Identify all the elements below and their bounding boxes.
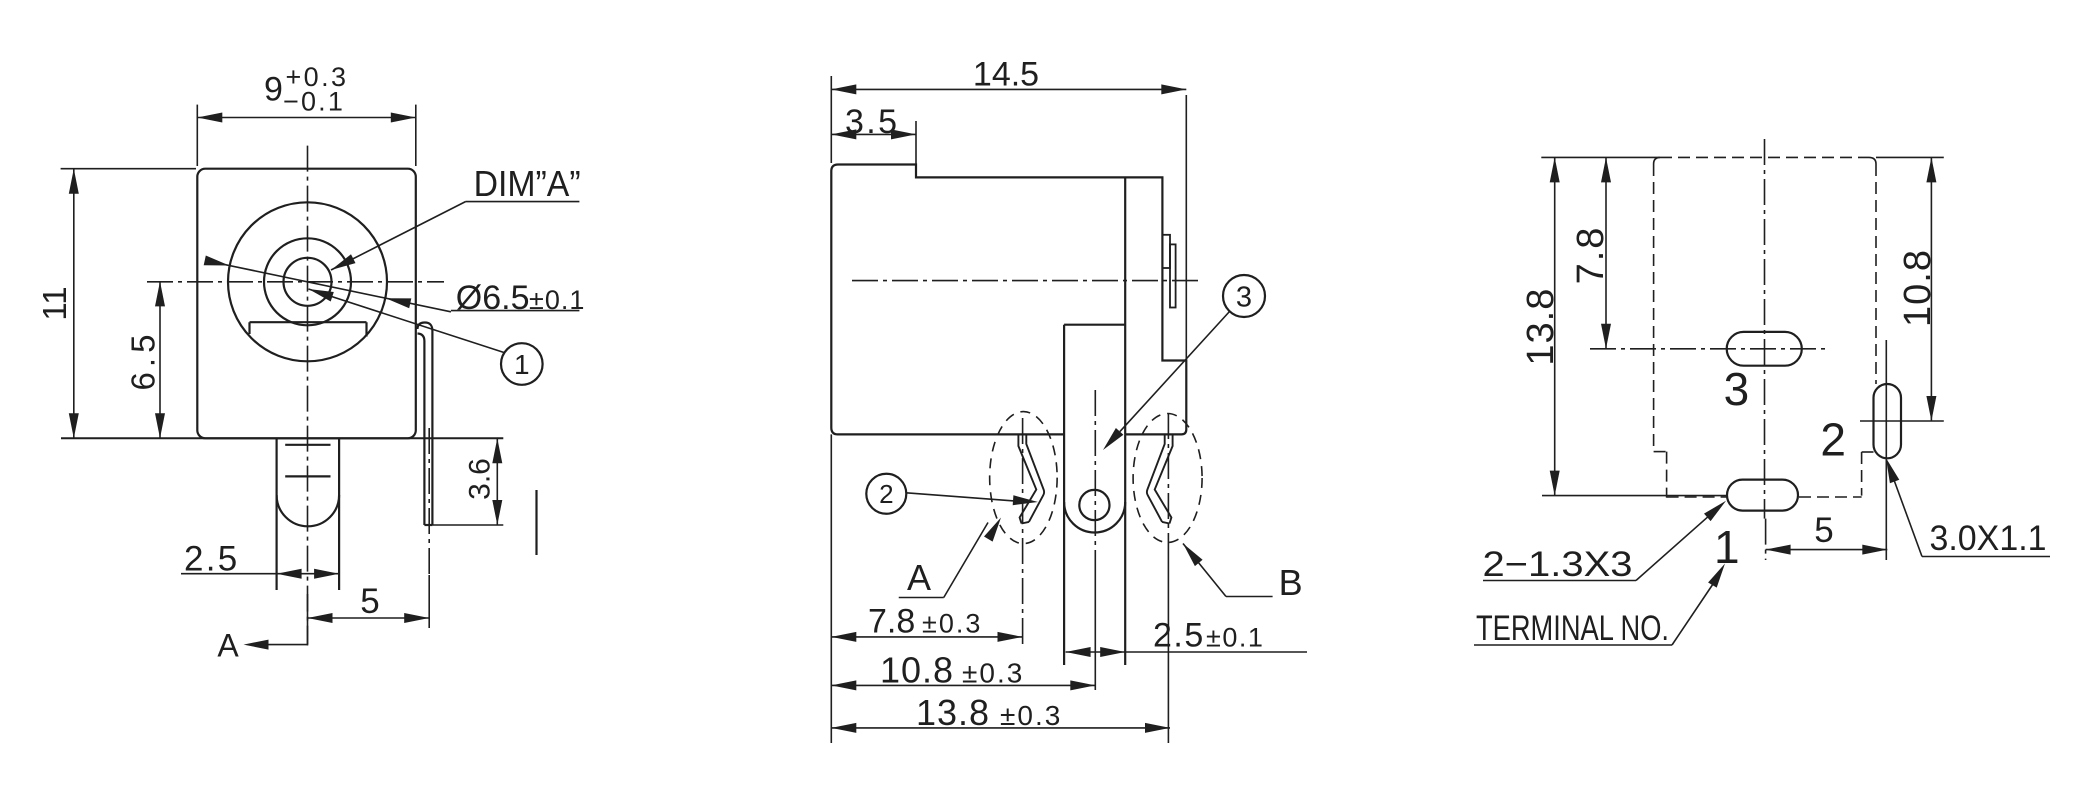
dia 6.5 arrow right <box>386 298 412 308</box>
center terminal center line ext <box>1094 565 1096 690</box>
clip B dashed ellipse <box>1133 414 1202 543</box>
svg-text:3.5: 3.5 <box>845 103 899 141</box>
dim 2.5 mid dimension line <box>1066 651 1307 653</box>
middle view body outline <box>831 165 1186 435</box>
middle view internal vertical edge <box>1124 177 1126 434</box>
label A underline <box>899 597 944 599</box>
note TERMINAL NO underline <box>1474 644 1672 646</box>
middle view horizontal center line <box>852 280 1202 282</box>
centre line solid segment at section A <box>307 594 309 646</box>
dim 7.8 right arrow top <box>1601 157 1611 182</box>
dim 3.5 arrow left <box>831 129 856 139</box>
side tab center line <box>428 428 430 575</box>
center terminal center line dashed <box>1094 390 1096 565</box>
right view right edge dashed <box>1875 164 1877 384</box>
dim 14.5 arrow right <box>1161 84 1186 94</box>
right view top-right corner <box>1869 157 1876 164</box>
dim 7.8 right dimension line <box>1605 157 1607 348</box>
dim 3.6 arrow bottom <box>492 500 502 525</box>
svg-text:±0.1: ±0.1 <box>1206 623 1264 653</box>
pin crimp mark lower <box>285 475 330 477</box>
dim 2.5 extension left <box>276 530 278 585</box>
vertical center line of left view <box>307 146 309 645</box>
horizontal center line of left view <box>147 281 444 283</box>
dim 3.5 dimension line <box>831 133 916 135</box>
pin crimp mark upper <box>285 444 330 446</box>
svg-text:5: 5 <box>360 582 379 621</box>
dia 6.5 leader line <box>213 262 451 312</box>
svg-text:6.5: 6.5 <box>125 330 162 391</box>
right view bottom edge dashed right <box>1799 496 1862 498</box>
note TERMINAL NO leader <box>1672 584 1713 645</box>
hole in center terminal <box>1079 490 1109 520</box>
balloon 2 circle <box>866 474 906 514</box>
right view dashed outline top <box>1660 156 1869 158</box>
slot 2 center line <box>1885 340 1887 560</box>
clip A center line ext for dim 7.8 <box>1022 418 1024 648</box>
dim 5 right arrow left <box>1766 545 1791 555</box>
center terminal tongue top edge <box>1064 324 1125 326</box>
svg-text:13.8: 13.8 <box>916 692 990 733</box>
dim 9 arrow left <box>197 113 222 123</box>
center terminal rounded end <box>1064 502 1125 533</box>
note 3.0X1.1 arrowhead <box>1886 458 1899 483</box>
svg-text:±0.1: ±0.1 <box>529 285 585 315</box>
middle circle of jack bushing <box>264 238 351 325</box>
dim 5 center ext <box>1765 519 1767 560</box>
right view left edge dashed <box>1653 164 1655 452</box>
svg-text:DIM”A”: DIM”A” <box>474 163 581 204</box>
dim 10.8 right arrow bottom <box>1926 396 1936 421</box>
dim 5 extension right <box>428 575 430 628</box>
label DIM A underline <box>466 201 580 203</box>
dim 2.5 arrow left <box>277 569 302 579</box>
inner circle center pin hole <box>284 258 332 306</box>
dim 5 arrow left <box>308 613 333 623</box>
balloon 1 arrowhead <box>309 289 334 302</box>
dim 9 arrow right <box>391 113 416 123</box>
center terminal tongue left edge <box>1063 325 1065 665</box>
dim 2.5 mid arrow left <box>1066 647 1091 657</box>
svg-text:±0.3: ±0.3 <box>1000 700 1062 731</box>
svg-text:11: 11 <box>36 286 73 320</box>
svg-text:A: A <box>907 557 931 598</box>
note TERMINAL NO arrowhead <box>1708 564 1725 588</box>
right view left notch step <box>1654 451 1667 453</box>
section A arrow line <box>266 644 308 646</box>
section A arrowhead <box>244 640 269 650</box>
dim 5 arrow right <box>404 613 429 623</box>
balloon 3 leader <box>1120 312 1230 432</box>
dim 2.5 extension right <box>338 530 340 586</box>
dim 13.8 arrow left <box>831 723 856 733</box>
square flange body 9x11 outline <box>197 169 415 439</box>
dim 3.5 ext right <box>915 121 917 176</box>
dim 13.8 arrow right <box>1145 723 1170 733</box>
balloon 3 arrowhead <box>1103 428 1123 450</box>
svg-text:1: 1 <box>1714 521 1740 573</box>
svg-text:Ø6.5: Ø6.5 <box>456 279 530 317</box>
label B arrowhead <box>1183 544 1203 567</box>
solder pin rounded tip <box>277 495 340 526</box>
note 2-1.3X3 arrowhead <box>1704 501 1726 521</box>
balloon 1 leader <box>309 289 505 353</box>
small latch plate outer <box>1163 235 1171 268</box>
dim 6.5 dimension line <box>159 281 161 438</box>
key tab flat inside barrel <box>250 322 367 336</box>
right view left notch vertical <box>1666 452 1668 498</box>
center terminal tongue right edge ext <box>1124 434 1126 665</box>
label B tail <box>1226 596 1273 598</box>
svg-text:5: 5 <box>1814 511 1833 550</box>
dim 7.8 dimension line <box>831 636 1022 638</box>
svg-text:10.8: 10.8 <box>1897 249 1939 327</box>
dia 6.5 underline <box>451 310 580 312</box>
dim 5 dimension line <box>308 617 430 619</box>
dim 9 extension line right <box>415 105 417 166</box>
dim 2.5 dimension line <box>181 573 339 575</box>
svg-text:±0.3: ±0.3 <box>962 658 1024 689</box>
right view right notch step <box>1862 451 1874 453</box>
dim 11 extension line top <box>61 168 196 170</box>
dim 7.8 arrow right <box>998 632 1023 642</box>
dim 13.8 dimension line <box>831 727 1170 729</box>
dim 5 right dimension line <box>1766 549 1888 551</box>
svg-text:13.8: 13.8 <box>1520 288 1562 366</box>
dim 11 arrow bottom <box>69 413 79 438</box>
dia 6.5 arrow left <box>204 256 230 266</box>
terminal slot 2 stadium <box>1874 384 1902 458</box>
dim 13.8 right ext top <box>1541 156 1660 158</box>
solder pin below flange left edge <box>276 438 278 590</box>
dim 13.8 right arrow bottom <box>1550 471 1560 496</box>
svg-text:2: 2 <box>1820 414 1846 466</box>
svg-text:2.5: 2.5 <box>1153 617 1205 655</box>
svg-text:2: 2 <box>879 479 893 509</box>
clip B center line ext for dim 13.8 <box>1167 413 1169 556</box>
dim 10.8 right arrow top <box>1926 157 1936 182</box>
balloon 2 leader <box>906 493 1014 501</box>
svg-text:3.0X1.1: 3.0X1.1 <box>1930 519 2047 558</box>
terminal slot 3 stadium <box>1727 332 1802 366</box>
left view baseline / bottom edge of square flange <box>61 437 503 439</box>
dim 13.8 right dimension line <box>1554 157 1556 495</box>
dim 14.5 dimension line <box>831 88 1186 90</box>
dim 10.8 arrow right <box>1070 680 1095 690</box>
dim 3.6 arrow top <box>492 438 502 463</box>
note 2-1.3X3 leader <box>1636 513 1712 580</box>
svg-text:3.6: 3.6 <box>464 458 497 500</box>
solder pin below flange right edge <box>338 438 340 590</box>
svg-text:B: B <box>1279 562 1303 603</box>
right view vertical center line <box>1764 139 1766 519</box>
svg-text:9: 9 <box>264 71 283 109</box>
balloon 1 circle <box>501 343 543 385</box>
spring clip B contact <box>1147 435 1173 524</box>
right view right notch vertical <box>1861 452 1863 496</box>
svg-text:3: 3 <box>1724 363 1750 415</box>
dim 10.8 dimension line <box>831 684 1095 686</box>
dim 3.6 dimension line <box>496 438 498 525</box>
dim 9 extension line left <box>196 105 198 166</box>
terminal slot 1 stadium <box>1727 480 1798 511</box>
dim 7.8 arrow left <box>831 632 856 642</box>
dim 9 dimension line <box>197 117 415 119</box>
balloon 3 circle <box>1223 275 1265 317</box>
dim 13.8 right ext bottom <box>1542 495 1727 497</box>
dim 3.5 arrow right <box>891 129 916 139</box>
svg-text:14.5: 14.5 <box>973 56 1039 94</box>
dim 11 arrow top <box>69 169 79 194</box>
clip A dashed ellipse <box>990 412 1058 544</box>
dim 14.5 ext left <box>830 76 832 163</box>
svg-text:1: 1 <box>514 349 530 380</box>
svg-text:−0.1: −0.1 <box>283 87 345 117</box>
label B leader <box>1183 544 1226 597</box>
small latch plate inner <box>1170 244 1176 307</box>
dim 13.8 right arrow top <box>1550 157 1560 182</box>
bent side tab outer edge <box>418 322 433 525</box>
side tab bottom end cap <box>424 524 432 526</box>
svg-text:7.8: 7.8 <box>1570 226 1612 285</box>
middle view right ext edge upper <box>1185 95 1187 361</box>
slot 3 horizontal center line <box>1590 348 1830 350</box>
balloon 2 arrowhead <box>1013 495 1038 505</box>
dim 10.8 right dimension line <box>1930 157 1932 421</box>
svg-text:7.8: 7.8 <box>868 603 915 641</box>
clip B ext line lower <box>1167 556 1169 743</box>
dim 2.5 mid arrow right <box>1100 647 1125 657</box>
dim 2.5 arrow right <box>314 569 339 579</box>
outer circle diameter 6.5 barrel <box>228 202 387 361</box>
dim 5 right arrow right <box>1862 545 1887 555</box>
middle left extension line <box>830 434 832 743</box>
dim 10.8 right ext bottom <box>1860 420 1944 422</box>
svg-text:TERMINAL NO.: TERMINAL NO. <box>1476 609 1669 648</box>
spring clip A contact <box>1018 435 1036 524</box>
right view bottom edge dashed left <box>1667 496 1727 498</box>
right view top-left corner <box>1654 157 1660 164</box>
svg-text:A: A <box>217 628 239 664</box>
dim 6.5 arrow top <box>155 281 165 306</box>
dim 10.8 arrow left <box>831 680 856 690</box>
label A leader <box>944 523 988 598</box>
dim 7.8 right arrow bottom <box>1601 324 1611 349</box>
dim 11 dimension line <box>73 169 75 439</box>
dim 14.5 arrow left <box>831 84 856 94</box>
svg-text:2.5: 2.5 <box>184 540 240 579</box>
note 2-1.3X3 underline <box>1483 580 1636 582</box>
dim 10.8 right ext top <box>1876 156 1944 158</box>
stray tick mark right of 3.6 <box>535 490 537 555</box>
svg-text:10.8: 10.8 <box>880 650 954 691</box>
svg-text:2−1.3X3: 2−1.3X3 <box>1483 545 1633 584</box>
svg-text:±0.3: ±0.3 <box>922 609 982 639</box>
label A arrowhead <box>984 518 1001 542</box>
svg-text:3: 3 <box>1236 282 1252 314</box>
bent side tab inner edge <box>418 334 425 526</box>
note 3.0X1.1 leader <box>1894 480 1922 557</box>
label DIM A arrowhead <box>331 254 356 270</box>
dim 6.5 arrow bottom <box>155 413 165 438</box>
dim 3.6 extension bottom <box>432 524 503 526</box>
note 3.0X1.1 underline <box>1922 556 2050 558</box>
label DIM A leader <box>331 202 466 270</box>
